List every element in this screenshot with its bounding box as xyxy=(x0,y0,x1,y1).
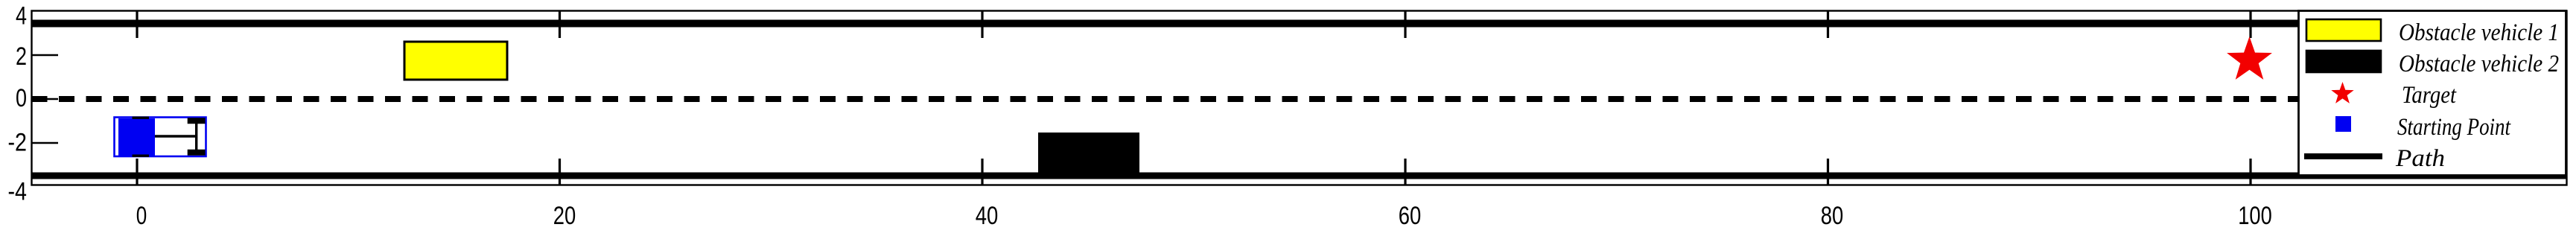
legend black patch: obstacle vehicle 2 xyxy=(2306,51,2381,72)
top road boundary line xyxy=(31,20,2567,28)
rear wheel top bar xyxy=(188,118,206,124)
legend yellow patch: obstacle vehicle 1 xyxy=(2306,19,2381,41)
svg-text:60: 60 xyxy=(1399,202,1422,230)
svg-text:80: 80 xyxy=(1821,202,1844,230)
obstacle vehicle 2 (black rectangle) xyxy=(1038,133,1139,176)
svg-text:Obstacle vehicle 1: Obstacle vehicle 1 xyxy=(2399,19,2559,46)
front wheel top bar xyxy=(133,116,150,118)
svg-text:-4: -4 xyxy=(8,177,28,205)
rear axle vertical line xyxy=(195,119,197,153)
bottom tick x=40 xyxy=(981,159,983,185)
top tick x=40 xyxy=(981,11,983,39)
bottom tick x=60 xyxy=(1404,159,1406,185)
left tick y=2 xyxy=(32,54,59,56)
obstacle vehicle 1 (yellow rectangle) xyxy=(404,42,507,80)
bottom road boundary line xyxy=(31,173,2567,179)
left tick y=0 xyxy=(32,98,59,100)
top tick x=80 xyxy=(1827,11,1829,39)
top tick x=20 xyxy=(559,11,561,39)
top tick x=0 xyxy=(136,11,138,39)
starting vehicle outline (blue box) xyxy=(115,118,206,157)
legend box xyxy=(2299,11,2566,176)
svg-text:100: 100 xyxy=(2238,202,2272,230)
axes box xyxy=(32,11,2567,185)
bottom tick x=20 xyxy=(559,159,561,185)
legend line sample: path xyxy=(2304,153,2382,159)
rear wheel bottom bar xyxy=(188,150,206,156)
svg-text:20: 20 xyxy=(553,202,576,230)
top tick x=100 xyxy=(2249,11,2251,39)
svg-text:0: 0 xyxy=(16,84,27,112)
bottom tick x=0 xyxy=(136,159,138,185)
svg-text:Target: Target xyxy=(2402,82,2457,109)
left tick y=-2 xyxy=(32,142,59,144)
dashed center lane line xyxy=(32,96,2568,102)
svg-text:Obstacle vehicle 2: Obstacle vehicle 2 xyxy=(2399,51,2559,77)
svg-text:4: 4 xyxy=(16,1,27,30)
svg-text:Starting Point: Starting Point xyxy=(2397,114,2511,141)
svg-text:40: 40 xyxy=(976,202,999,230)
target star (red) xyxy=(2227,36,2272,80)
starting vehicle cab (blue filled) xyxy=(118,118,155,156)
top tick x=60 xyxy=(1404,11,1406,39)
svg-text:0: 0 xyxy=(136,202,147,230)
front wheel bottom bar xyxy=(133,154,150,156)
legend blue square marker: starting point xyxy=(2335,116,2351,132)
svg-text:Path: Path xyxy=(2395,145,2445,172)
bottom tick x=80 xyxy=(1827,159,1829,185)
svg-text:-2: -2 xyxy=(8,128,28,156)
legend star marker: target xyxy=(2331,82,2353,103)
bottom tick x=100 xyxy=(2249,159,2251,185)
drive shaft line xyxy=(155,135,197,138)
svg-text:2: 2 xyxy=(16,42,27,71)
